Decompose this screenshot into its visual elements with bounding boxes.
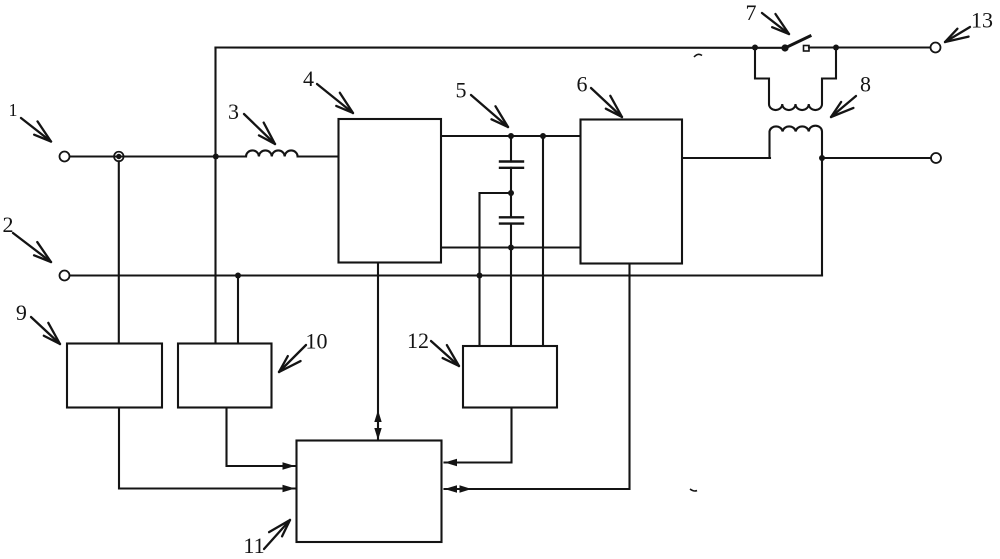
node dot left of switch 7 — [752, 45, 758, 51]
switch 7 pivot dot — [781, 44, 788, 51]
wire inductor 3 to box 4 — [298, 155, 339, 157]
wire bypass with transformer upper winding — [755, 48, 836, 111]
wire box 4 bottom to box 11 — [377, 263, 379, 441]
stray scan mark near switch — [694, 54, 702, 57]
pointer arrow label 13 — [945, 27, 970, 42]
wire switch to terminal 13 — [809, 46, 930, 48]
pointer arrow label 4 — [317, 84, 353, 113]
box 9 — [67, 344, 162, 408]
terminal 13 — [931, 43, 941, 53]
arrowhead bidirectional right on box6-box11 wire — [460, 485, 472, 493]
wire vertical output junction down to rail2 — [821, 158, 823, 276]
wire from circled node down to box 9 — [118, 161, 120, 343]
pointer arrow label 10 — [279, 345, 306, 372]
capacitor 5 upper plates — [500, 160, 523, 162]
pointer arrow label 5 — [471, 95, 508, 127]
svg-text:8: 8 — [860, 72, 871, 97]
node dot upper wire / sense line — [540, 133, 546, 139]
wire box 10 to box 11 — [227, 408, 296, 467]
terminal 1 — [60, 152, 70, 162]
wire top rail — [216, 46, 786, 48]
wire box 6 to inductor 8 — [682, 157, 770, 159]
wire box 9 to box 11 — [119, 408, 295, 489]
svg-text:5: 5 — [456, 78, 467, 103]
inductor 8 lower winding — [770, 126, 823, 158]
switch 7 fixed contact square — [804, 46, 810, 52]
box 4 — [339, 119, 442, 263]
svg-text:7: 7 — [746, 0, 757, 25]
stray scan mark near box 11 arrow — [690, 489, 697, 491]
node dot rail2 to box 10 — [235, 273, 241, 279]
terminal 2 — [60, 271, 70, 281]
wire box 12 to box 11 — [445, 408, 512, 463]
terminal output right — [931, 153, 941, 163]
capacitor 5 lower plates — [500, 216, 523, 218]
wire box 4 to box 6 lower — [441, 246, 581, 248]
svg-text:9: 9 — [16, 300, 27, 325]
svg-text:10: 10 — [306, 329, 328, 354]
pointer arrow label 3 — [244, 114, 275, 144]
wire sense line mid tap — [480, 193, 512, 346]
wire rail2 down to box 10 — [237, 276, 239, 344]
wire rail2 from terminal 2 — [70, 274, 823, 276]
switch 7 blade — [785, 36, 810, 48]
wire sense line from top node to box 12 — [542, 136, 544, 346]
wire capacitor chain top — [510, 136, 512, 162]
pointer arrow label 6 — [591, 88, 622, 117]
box 11 — [297, 441, 442, 543]
box 10 — [178, 344, 272, 408]
wire capacitor chain bottom — [510, 224, 512, 248]
node dot between capacitors — [508, 190, 514, 196]
node dot right of switch 7 — [833, 45, 839, 51]
svg-text:11: 11 — [243, 533, 264, 558]
node junction rail1 / vertical — [213, 154, 219, 160]
pointer arrow label 9 — [31, 317, 60, 344]
wire inductor 8 to output terminal — [822, 157, 931, 159]
svg-text:6: 6 — [577, 72, 588, 97]
svg-text:1: 1 — [9, 100, 18, 120]
pointer arrow label 12 — [431, 341, 459, 366]
svg-text:2: 2 — [3, 212, 14, 237]
node dot upper wire / capacitor 5 — [508, 133, 514, 139]
wire sense line from capacitor bottom to box 12 — [510, 248, 512, 347]
wire rail1 from terminal 1 to inductor 3 — [70, 155, 247, 157]
wire box 6 to box 11 — [445, 264, 630, 490]
node dot rail2 / sense line — [477, 273, 483, 279]
node dot output junction — [819, 155, 825, 161]
svg-text:4: 4 — [303, 66, 314, 91]
svg-text:12: 12 — [407, 328, 429, 353]
svg-text:13: 13 — [971, 8, 993, 33]
box 12 — [463, 346, 557, 408]
wire vertical from top rail corner down to box 10 — [214, 48, 216, 344]
node circled junction on rail1 — [114, 152, 124, 162]
inductor 3 — [246, 150, 298, 156]
arrowhead up on box4-box11 wire — [374, 410, 381, 422]
arrowhead down on box4-box11 wire — [374, 428, 381, 440]
wire box 4 to box 6 upper — [441, 135, 581, 137]
wire between capacitors — [510, 168, 512, 218]
svg-text:3: 3 — [228, 99, 239, 124]
pointer arrow label 8 — [831, 96, 856, 117]
pointer arrow label 1 — [21, 118, 51, 142]
pointer arrow label 2 — [13, 233, 51, 262]
box 6 — [581, 120, 683, 264]
pointer arrow label 11 — [264, 520, 290, 549]
node dot lower wire / capacitor — [508, 245, 514, 251]
pointer arrow label 7 — [762, 13, 789, 34]
